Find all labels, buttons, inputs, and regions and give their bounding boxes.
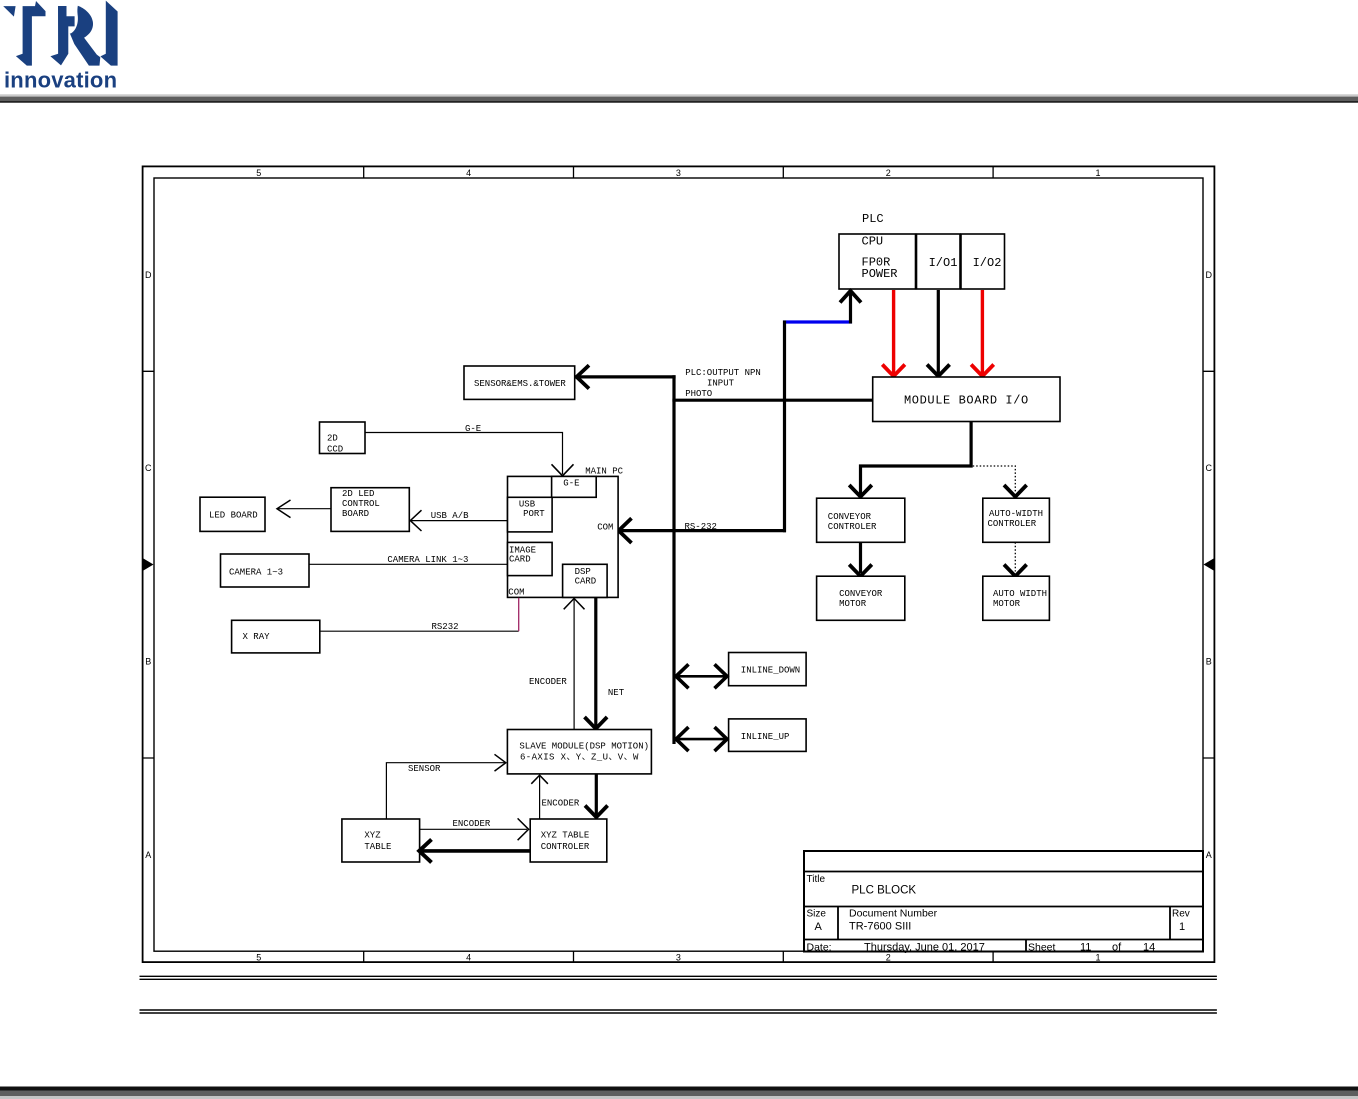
- svg-text:INLINE_UP: INLINE_UP: [741, 732, 790, 742]
- svg-text:MOTOR: MOTOR: [993, 599, 1021, 609]
- sheet frame inner border: [154, 178, 1203, 951]
- svg-text:2: 2: [886, 952, 891, 962]
- svg-text:Date:: Date:: [807, 942, 832, 954]
- wire conveyor controller to motor: [859, 542, 862, 573]
- 2D CCD box: [320, 422, 366, 454]
- footer double rule upper: [140, 976, 1217, 979]
- wire ENCODER slave to xyz controller: [539, 776, 541, 819]
- CONVEYOR CONTROLER box: [817, 498, 905, 542]
- svg-text:PHOTO: PHOTO: [685, 389, 712, 399]
- wire double arrow inline up: [676, 738, 727, 741]
- wire USB A/B: [412, 520, 508, 522]
- wire NET dsp to slave: [594, 598, 597, 728]
- svg-text:C: C: [145, 463, 152, 473]
- svg-text:RS232: RS232: [432, 622, 459, 632]
- wire ENCODER dsp to slave: [573, 599, 575, 730]
- svg-text:A: A: [1206, 850, 1212, 860]
- svg-text:B: B: [145, 657, 151, 667]
- wire black arrow I/O1 to module board: [937, 290, 940, 374]
- svg-text:1: 1: [1095, 952, 1100, 962]
- svg-text:COM: COM: [597, 523, 613, 533]
- frame column ticks bottom: [364, 951, 993, 962]
- svg-text:PLC BLOCK: PLC BLOCK: [852, 885, 917, 897]
- frame column ticks top: [364, 166, 993, 178]
- svg-text:Rev: Rev: [1172, 909, 1190, 920]
- svg-text:CARD: CARD: [575, 576, 597, 586]
- svg-text:Sheet: Sheet: [1028, 942, 1056, 954]
- X RAY box: [232, 620, 320, 653]
- footer double rule lower: [140, 1010, 1217, 1013]
- wire arrow to LED BOARD: [278, 508, 331, 510]
- svg-text:SENSOR: SENSOR: [408, 764, 441, 774]
- title block row lines: [804, 872, 1203, 940]
- svg-text:14: 14: [1143, 942, 1155, 954]
- wire vertical bus at x674: [672, 375, 675, 744]
- wire thick controller to xyz table: [421, 849, 531, 853]
- svg-text:CAMERA 1~3: CAMERA 1~3: [229, 568, 283, 578]
- svg-text:5: 5: [256, 952, 261, 962]
- svg-text:6-AXIS X、Y、Z_U、V、W: 6-AXIS X、Y、Z_U、V、W: [520, 753, 639, 763]
- svg-text:C: C: [1206, 463, 1213, 473]
- svg-text:A: A: [145, 850, 151, 860]
- PLC I/O1 box: [917, 234, 961, 289]
- svg-text:CARD: CARD: [509, 555, 531, 565]
- svg-text:BOARD: BOARD: [342, 509, 369, 519]
- svg-text:USB A/B: USB A/B: [431, 511, 469, 521]
- G-E cell: [552, 476, 597, 497]
- wire module board to left bus: [672, 399, 872, 402]
- svg-text:AUTO WIDTH: AUTO WIDTH: [993, 589, 1047, 599]
- frame row ticks right: [1203, 371, 1214, 758]
- svg-text:X RAY: X RAY: [243, 632, 271, 642]
- svg-text:XYZ: XYZ: [364, 830, 381, 840]
- XYZ TABLE CONTROLER box: [530, 819, 607, 862]
- svg-text:CONTROL: CONTROL: [342, 499, 380, 509]
- svg-text:TABLE: TABLE: [364, 842, 391, 852]
- wire crimson COM segment: [518, 598, 520, 631]
- wire red arrow I/O2 to module board: [981, 290, 984, 374]
- frame column numbers top: [256, 168, 1100, 178]
- frame row ticks left: [143, 371, 154, 758]
- sheet frame outer border: [143, 166, 1215, 962]
- wire black up into CPU: [849, 291, 852, 324]
- svg-text:G-E: G-E: [563, 479, 579, 489]
- svg-text:11: 11: [1080, 942, 1091, 954]
- AUTO-WIDTH CONTROLER box: [983, 498, 1050, 542]
- svg-text:XYZ TABLE: XYZ TABLE: [541, 830, 590, 840]
- TRI logo letter R: [50, 6, 74, 65]
- wire dotted controller to auto width motor: [1014, 542, 1016, 571]
- svg-text:MODULE BOARD I/O: MODULE BOARD I/O: [904, 394, 1029, 408]
- svg-text:1: 1: [1095, 168, 1100, 178]
- wire blue segment: [783, 320, 852, 323]
- LED BOARD box: [200, 497, 265, 531]
- wire G-E from 2D CCD to MAIN PC: [365, 433, 563, 475]
- USB PORT cell: [508, 497, 553, 532]
- TRI logo letter T: [3, 1, 117, 66]
- title block column lines: [838, 907, 1170, 952]
- svg-text:CCD: CCD: [327, 445, 343, 455]
- svg-text:3: 3: [676, 168, 681, 178]
- svg-text:CONVEYOR: CONVEYOR: [828, 512, 872, 522]
- svg-text:Thursday, June 01, 2017: Thursday, June 01, 2017: [864, 942, 985, 954]
- svg-text:D: D: [1206, 270, 1213, 280]
- svg-text:CONVEYOR: CONVEYOR: [839, 589, 883, 599]
- svg-text:COM: COM: [508, 588, 524, 598]
- svg-text:2D: 2D: [327, 434, 338, 444]
- svg-text:INPUT: INPUT: [707, 379, 735, 389]
- svg-text:PLC: PLC: [862, 212, 884, 226]
- svg-text:CONTROLER: CONTROLER: [988, 519, 1037, 529]
- wire RS232 xray: [320, 630, 519, 632]
- svg-text:4: 4: [466, 952, 471, 962]
- svg-text:SENSOR&EMS.&TOWER: SENSOR&EMS.&TOWER: [474, 379, 566, 389]
- svg-text:D: D: [145, 270, 152, 280]
- DSP CARD cell: [563, 564, 608, 597]
- footer bottom bars: [0, 1087, 1358, 1091]
- svg-text:Document Number: Document Number: [849, 908, 938, 920]
- wire CAMERA LINK: [309, 563, 508, 565]
- wire RS-232 into MAIN PC COM: [619, 529, 786, 532]
- svg-text:CAMERA LINK 1~3: CAMERA LINK 1~3: [387, 555, 468, 565]
- svg-text:I/O1: I/O1: [929, 256, 958, 270]
- frame center marker right: [1204, 559, 1214, 571]
- svg-text:Title: Title: [807, 874, 826, 885]
- svg-text:5: 5: [256, 168, 261, 178]
- wire module board down branch: [861, 422, 972, 495]
- IMAGE CARD cell: [508, 542, 553, 575]
- svg-text:ENCODER: ENCODER: [529, 677, 567, 687]
- svg-text:INLINE_DOWN: INLINE_DOWN: [741, 666, 800, 676]
- MAIN PC box: [508, 476, 619, 597]
- svg-text:B: B: [1206, 657, 1212, 667]
- svg-text:MAIN PC: MAIN PC: [585, 466, 623, 476]
- wire dotted to auto-width controller: [973, 466, 1016, 493]
- svg-text:PORT: PORT: [523, 509, 545, 519]
- svg-text:MOTOR: MOTOR: [839, 599, 867, 609]
- svg-text:PLC:OUTPUT NPN: PLC:OUTPUT NPN: [685, 368, 761, 378]
- SLAVE MODULE box: [507, 730, 651, 774]
- frame center marker left: [143, 559, 153, 571]
- svg-text:innovation: innovation: [4, 68, 117, 93]
- PLC I/O2 box: [961, 234, 1005, 289]
- wire vertical from blue to RS-232: [783, 321, 786, 533]
- SENSOR&EMS.&TOWER box: [464, 366, 575, 399]
- CAMERA 1~3 box: [221, 554, 310, 587]
- TRI logo letter I: [100, 1, 117, 66]
- CONVEYOR MOTOR box: [817, 576, 905, 620]
- header divider bar: [0, 94, 1358, 96]
- INLINE_UP box: [729, 719, 807, 752]
- wire red arrow CPU to module board: [892, 290, 895, 374]
- svg-text:NET: NET: [608, 688, 625, 698]
- svg-text:ENCODER: ENCODER: [542, 799, 580, 809]
- wire double arrow inline down: [676, 675, 727, 678]
- svg-text:3: 3: [676, 952, 681, 962]
- INLINE_DOWN box: [729, 653, 807, 686]
- wire ENCODER xyz table to controller: [420, 828, 527, 830]
- svg-text:A: A: [815, 921, 823, 933]
- svg-text:TR-7600 SIII: TR-7600 SIII: [849, 921, 911, 933]
- title block outer box: [804, 851, 1203, 952]
- svg-text:ENCODER: ENCODER: [453, 819, 491, 829]
- svg-text:Size: Size: [807, 909, 827, 920]
- svg-text:RS-232: RS-232: [685, 522, 717, 532]
- 2D LED CONTROL BOARD box: [331, 488, 409, 532]
- wire thick slave to xyz controller: [595, 774, 598, 816]
- svg-text:AUTO-WIDTH: AUTO-WIDTH: [989, 509, 1043, 519]
- svg-text:of: of: [1112, 942, 1122, 954]
- svg-text:1: 1: [1179, 921, 1185, 933]
- AUTO WIDTH MOTOR box: [983, 576, 1050, 620]
- svg-text:CONTROLER: CONTROLER: [828, 522, 877, 532]
- MODULE BOARD I/O box: [873, 377, 1060, 422]
- svg-text:SLAVE MODULE(DSP MOTION): SLAVE MODULE(DSP MOTION): [519, 742, 649, 752]
- svg-text:CPU: CPU: [862, 235, 884, 249]
- wire SENSOR xyz to slave: [386, 763, 504, 819]
- svg-text:CONTROLER: CONTROLER: [541, 842, 590, 852]
- svg-text:2: 2: [886, 168, 891, 178]
- wire arrow to sensor tower box: [578, 375, 676, 378]
- frame column numbers bottom: [256, 952, 1100, 962]
- frame row letters left: [145, 270, 152, 860]
- svg-text:4: 4: [466, 168, 471, 178]
- svg-text:I/O2: I/O2: [973, 256, 1002, 270]
- svg-text:LED BOARD: LED BOARD: [209, 510, 258, 520]
- PLC CPU box: [839, 234, 916, 289]
- frame row letters right: [1206, 270, 1213, 860]
- svg-text:G-E: G-E: [465, 424, 481, 434]
- svg-text:POWER: POWER: [862, 267, 898, 281]
- XYZ TABLE box: [342, 819, 420, 862]
- svg-text:2D LED: 2D LED: [342, 489, 374, 499]
